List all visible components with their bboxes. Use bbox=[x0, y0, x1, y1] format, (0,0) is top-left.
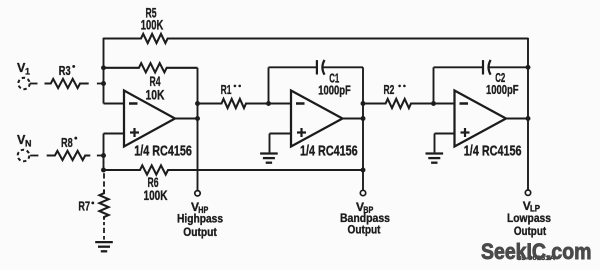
input VN dashed source circle bbox=[18, 150, 30, 162]
svg-text:Output: Output bbox=[348, 223, 381, 236]
wire: V1 stub bbox=[30, 83, 38, 85]
svg-text:1/4 RC4156: 1/4 RC4156 bbox=[134, 144, 192, 160]
ground (op2) bbox=[260, 152, 278, 154]
resistor R1** bbox=[198, 99, 269, 108]
capacitor C2 1000pF feedback row bbox=[434, 66, 484, 68]
svg-text:R8: R8 bbox=[61, 135, 73, 150]
svg-text:1/4 RC4156: 1/4 RC4156 bbox=[464, 144, 522, 160]
op-amp U1 1/4 RC4156 bbox=[124, 91, 175, 147]
resistor R4 10K feedback bbox=[104, 63, 198, 72]
svg-text:Output: Output bbox=[514, 225, 546, 238]
wire: op1 output bbox=[175, 118, 198, 120]
wire: op3 output vertical / VLP line bbox=[527, 38, 529, 190]
wire: left non-inverting vertical bbox=[103, 134, 105, 171]
op-amp U2 non-inverting pin (+) bbox=[297, 131, 306, 133]
node: R2 branch bbox=[361, 101, 366, 106]
wire: VN stub bbox=[30, 155, 38, 157]
wire: op3 non-inverting input to ground bbox=[435, 133, 455, 135]
resistor R3* bbox=[45, 79, 89, 88]
wire: op3 inverting node vertical bbox=[433, 67, 435, 103]
resistor R7* (dashed connection) bbox=[103, 173, 105, 178]
terminal VHP bbox=[195, 191, 200, 196]
resistor R5 100K (top feedback wire) bbox=[104, 34, 529, 43]
wire: op3 output bbox=[506, 118, 528, 120]
op-amp U2 1/4 RC4156 bbox=[291, 91, 343, 147]
wire: op2 output bbox=[343, 118, 364, 120]
svg-text:R2: R2 bbox=[384, 82, 395, 97]
wire: op1 inverting input bbox=[104, 103, 125, 105]
node: op3 output junction bbox=[526, 116, 531, 121]
svg-text:N: N bbox=[25, 138, 32, 148]
op-amp U2 inverting pin (-) bbox=[296, 102, 305, 105]
op-amp U3 inverting pin (-) bbox=[460, 102, 469, 105]
node A: V1 junction bbox=[101, 81, 106, 86]
wire: stub to node B bbox=[97, 155, 104, 157]
svg-text:10K: 10K bbox=[146, 88, 165, 103]
svg-text:R1: R1 bbox=[221, 82, 232, 97]
svg-text:R3: R3 bbox=[59, 63, 71, 78]
wire: stub to node A bbox=[97, 83, 104, 85]
input V1 dashed source circle bbox=[18, 78, 29, 89]
wire: op2 inverting node vertical bbox=[268, 67, 270, 103]
svg-text:SeekIC.com: SeekIC.com bbox=[481, 239, 592, 264]
wire: op3 inverting input bbox=[434, 103, 455, 105]
ground (R7) bbox=[95, 241, 113, 243]
svg-text:R4: R4 bbox=[150, 74, 161, 89]
svg-text:1: 1 bbox=[25, 67, 30, 77]
node: R4 junction bbox=[101, 65, 106, 70]
capacitor C1 1000pF feedback row bbox=[269, 66, 317, 68]
svg-text:Highpass: Highpass bbox=[177, 213, 223, 226]
svg-text:1000pF: 1000pF bbox=[486, 82, 519, 97]
wire: op2 output vertical / VBP line bbox=[362, 67, 364, 190]
svg-text:100K: 100K bbox=[144, 188, 168, 203]
wire: left inverting-node vertical bbox=[103, 38, 105, 104]
svg-text:R7: R7 bbox=[78, 199, 90, 214]
svg-text:100K: 100K bbox=[141, 18, 164, 33]
node: op2 inverting junction bbox=[266, 101, 271, 106]
wire: op1 output vertical / VHP line bbox=[197, 68, 199, 191]
node: op2 output junction bbox=[361, 116, 366, 121]
ground (op3) bbox=[426, 152, 444, 154]
node: R6 feedback junction bbox=[361, 168, 366, 173]
resistor R6 100K bottom feedback bbox=[104, 165, 364, 174]
svg-text:1000pF: 1000pF bbox=[318, 82, 351, 97]
node: C2/R5 junction bbox=[526, 65, 531, 70]
resistor R2** bbox=[363, 99, 434, 108]
wire: op2 non-inverting input to ground bbox=[270, 133, 292, 135]
node: op1 output junction bbox=[195, 116, 200, 121]
node: R6 junction bbox=[101, 168, 106, 173]
terminal VBP bbox=[360, 190, 365, 195]
op-amp U1 non-inverting pin (+) bbox=[130, 131, 139, 133]
node: R1 branch bbox=[195, 101, 200, 106]
svg-text:1/4 RC4156: 1/4 RC4156 bbox=[300, 144, 358, 160]
op-amp U3 1/4 RC4156 bbox=[455, 91, 507, 147]
svg-text:Output: Output bbox=[183, 226, 217, 239]
wire: op2 inverting input bbox=[269, 103, 292, 105]
op-amp U1 inverting pin (-) bbox=[129, 102, 138, 105]
wire: op1 non-inverting input bbox=[104, 133, 125, 135]
node B: VN junction bbox=[101, 153, 106, 158]
svg-text:Lowpass: Lowpass bbox=[507, 212, 551, 225]
resistor R8* bbox=[47, 151, 91, 160]
node: op3 inverting junction bbox=[431, 101, 436, 106]
op-amp U3 non-inverting pin (+) bbox=[461, 131, 470, 133]
terminal VLP bbox=[525, 190, 530, 195]
